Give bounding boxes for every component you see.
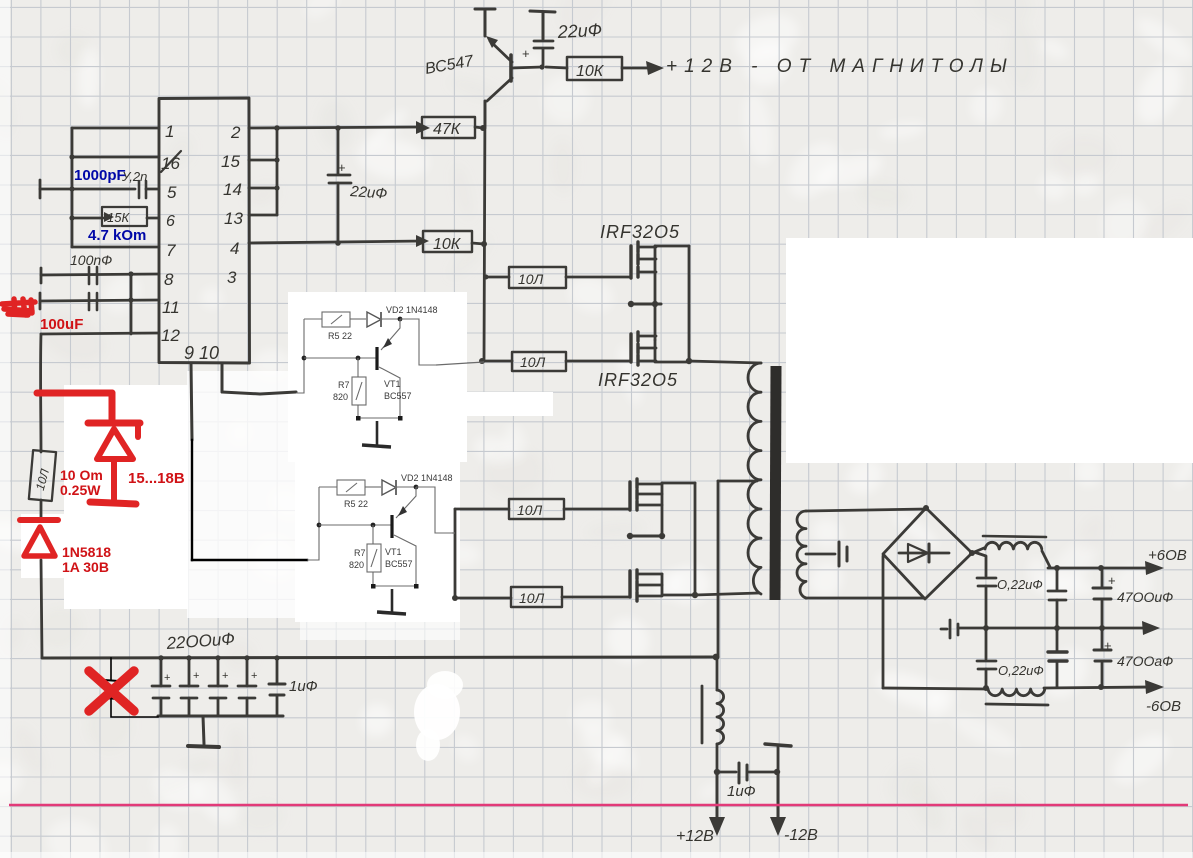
wire R2 to diode — [40, 500, 43, 520]
capacitor C14 1uF — [276, 658, 279, 716]
svg-text:47ООаФ: 47ООаФ — [1117, 653, 1173, 669]
junction midpoint c — [627, 533, 633, 539]
transistor VT1 driver2 emitter — [396, 487, 416, 518]
wire pin15 — [249, 159, 277, 162]
driver1 base wire — [304, 357, 376, 359]
wire row1 gate left — [485, 276, 509, 279]
right bus upper pair — [688, 246, 691, 362]
junction +60V a — [1054, 565, 1060, 571]
wire pin1 — [72, 127, 159, 130]
filter column upper lead — [974, 552, 986, 576]
wire 10K to bus — [472, 243, 484, 244]
wire bottom to L2 — [883, 688, 987, 689]
svg-text:13: 13 — [224, 209, 243, 228]
driver2 top wire — [319, 486, 337, 488]
wire junction to choke — [716, 657, 719, 690]
driver2 base wire — [319, 524, 391, 526]
resistor R5a 10 ohm box — [509, 267, 566, 288]
transformer T1 core — [775, 366, 776, 600]
mosfet Q5 source stub — [662, 574, 695, 595]
junction base node — [539, 64, 544, 69]
node top T terminal — [475, 9, 495, 36]
wire midpoint bar lower — [629, 535, 663, 538]
wire pin6 right — [147, 217, 159, 220]
crossed-out capacitor plates — [104, 680, 119, 699]
mosfet Q3 IRF3205 gate bar — [629, 334, 632, 362]
wire center tap to down bus — [718, 480, 757, 483]
transformer T1 primary winding — [748, 363, 761, 594]
svg-text:4.7 kOm: 4.7 kOm — [88, 227, 146, 244]
capacitor C6 center tap plates — [839, 542, 847, 566]
mosfet Q2 channel vertical — [654, 246, 657, 340]
junction pin15 — [274, 157, 279, 162]
transistor VT1 driver1 collector — [379, 367, 400, 418]
svg-text:14: 14 — [223, 180, 242, 199]
svg-text:BC557: BC557 — [385, 559, 413, 569]
driver2 output wire — [416, 487, 452, 533]
pin2 wire — [249, 127, 422, 128]
driver1 top wire — [304, 318, 322, 320]
wire pin5 left — [40, 188, 135, 191]
junction pin2 bus — [274, 125, 280, 131]
wire left supply rail upper — [39, 334, 42, 452]
junction +60V b — [1098, 565, 1104, 571]
junction row2 — [479, 358, 485, 364]
wire bridge left down — [882, 556, 885, 688]
white box of lower driver inset — [295, 450, 460, 622]
wire collector bus top — [484, 101, 487, 128]
svg-text:7: 7 — [166, 241, 176, 260]
wire Q2 drain rail — [655, 245, 689, 248]
transistor VT1 driver2 collector — [394, 535, 416, 586]
white band right of upper inset — [463, 392, 553, 416]
center tap down bus — [717, 481, 720, 657]
svg-text:+: + — [164, 672, 170, 684]
svg-text:1000pF: 1000pF — [74, 167, 126, 184]
ground driver1 — [376, 421, 379, 446]
schottky diode VD4 bar — [20, 517, 58, 523]
R7 leads driver2 — [372, 525, 374, 586]
resistor R6b 10 ohm box — [511, 587, 562, 607]
junction 0V filter — [983, 625, 989, 631]
capacitor C10 lead — [1056, 568, 1059, 590]
wire pin4 — [249, 241, 423, 243]
white patch top right — [786, 238, 1193, 463]
svg-text:100nФ: 100nФ — [70, 252, 112, 268]
capacitor C1 plates — [534, 41, 553, 48]
wire pin9 digital vertical — [191, 440, 193, 560]
svg-text:10К: 10К — [576, 63, 605, 80]
capacitor C13 lead2 — [1101, 661, 1104, 686]
svg-text:4: 4 — [230, 239, 239, 258]
gate drive bus vertical — [484, 101, 485, 361]
wire -60V rail — [1044, 687, 1148, 688]
resistor R7 driver2 — [367, 544, 381, 572]
transistor Q1 collector — [487, 78, 512, 101]
junction right bus upper — [686, 358, 692, 364]
junction bridge right — [969, 550, 975, 556]
svg-text:1uФ: 1uФ — [289, 678, 318, 695]
junction right bus lower — [692, 592, 698, 598]
svg-text:10 Om: 10 Om — [60, 467, 103, 483]
svg-text:1A 30В: 1A 30В — [62, 559, 109, 575]
mosfet Q3 channel plates — [636, 332, 639, 365]
driver1 bottom rail — [358, 417, 400, 419]
capacitor C12 plates — [1093, 588, 1111, 599]
capacitor C5 lead bottom — [337, 183, 340, 243]
wire bus pin8-pin12 — [130, 274, 133, 334]
capacitor C8 0.22uF plates — [977, 661, 996, 669]
wire diode to bottom rail — [41, 560, 42, 657]
wire pin9 digital horizontal — [192, 559, 307, 561]
white patch left annotation zone — [64, 385, 188, 609]
strike over pin16 label — [161, 151, 181, 172]
wire VD2 to node driver2 — [396, 486, 416, 488]
svg-text:16: 16 — [161, 154, 180, 173]
wire row3 gate right — [564, 508, 630, 511]
svg-text:11: 11 — [162, 298, 180, 317]
capacitor C12 lead2 — [1101, 599, 1104, 628]
svg-text:10Л: 10Л — [518, 271, 544, 287]
svg-text:+: + — [222, 670, 228, 682]
junction pin8 — [128, 271, 133, 276]
svg-text:6: 6 — [166, 213, 175, 230]
svg-text:BC557: BC557 — [384, 391, 412, 401]
svg-text:10Л: 10Л — [520, 354, 546, 370]
transistor Q1 base bar — [509, 55, 513, 81]
junction pin16 — [69, 154, 74, 159]
svg-text:5: 5 — [167, 183, 177, 202]
resistor R6a 10 ohm box — [512, 352, 566, 371]
bottom supply rail — [42, 657, 716, 658]
capacitor C3 100n plates — [89, 267, 97, 284]
wire pin10 hand stub — [221, 363, 224, 391]
arrow +12V output — [646, 61, 664, 75]
svg-text:47К: 47К — [433, 121, 462, 138]
junctions cap bank — [158, 655, 163, 660]
svg-text:2: 2 — [230, 123, 241, 142]
wire row2 gate right — [566, 360, 631, 363]
inductor L1 winding — [985, 542, 1042, 549]
right bus lower pair — [694, 483, 697, 595]
eraser blob bottom middle — [414, 684, 460, 740]
red marker annotations — [2, 299, 140, 711]
wire pin5 right — [146, 188, 159, 191]
capacitor C13 plates — [1094, 650, 1111, 661]
svg-text:+: + — [251, 670, 257, 682]
transistor VT1 driver2 base bar — [390, 515, 393, 538]
svg-text:15...18В: 15...18В — [128, 470, 185, 487]
svg-text:+: + — [193, 670, 199, 682]
junction driver2 base rail — [317, 523, 322, 528]
junction driver1 R7 — [356, 356, 361, 361]
arrow +60V — [1145, 561, 1164, 575]
junction midpoint a — [628, 301, 634, 307]
junction -12 node — [774, 769, 780, 775]
svg-text:1uФ: 1uФ — [727, 783, 756, 800]
capacitor C5 22uF lead top — [337, 128, 340, 174]
svg-text:10Л: 10Л — [517, 502, 543, 518]
wire row2 gate left — [485, 360, 512, 363]
resistor R5b 10 ohm box — [509, 499, 564, 519]
junction 10K bus — [481, 241, 487, 247]
cap bank bottom bar — [158, 715, 283, 718]
capacitor C2 1n2 plates — [139, 181, 146, 198]
svg-text:VD2 1N4148: VD2 1N4148 — [401, 473, 453, 483]
svg-text:10Л: 10Л — [519, 590, 545, 606]
svg-text:22uФ: 22uФ — [349, 183, 388, 203]
svg-text:IRF32О5: IRF32О5 — [600, 222, 680, 242]
wire secondary top — [806, 509, 926, 511]
capacitor C1 22uF top terminal — [530, 11, 555, 39]
svg-text:100uF: 100uF — [40, 316, 83, 333]
wire left bus pins 1-7 — [71, 128, 74, 247]
wire C1 to base node — [542, 49, 545, 67]
wire to primary bottom — [695, 593, 759, 595]
resistor R1 15K box — [102, 207, 147, 226]
filter column lower lead — [985, 669, 988, 688]
blue annotations — [74, 167, 146, 244]
pink separator line — [9, 804, 1188, 807]
driver2 left wire — [307, 487, 319, 560]
transformer T1 secondary winding — [797, 511, 806, 598]
wire base Q1 to C1 — [512, 67, 542, 68]
svg-text:1: 1 — [165, 122, 174, 141]
wire pin10 horizontal — [222, 392, 296, 394]
svg-text:VT1: VT1 — [385, 547, 402, 557]
arrow 0V — [1142, 621, 1160, 635]
wire pin12 — [41, 333, 159, 334]
junction bottom rail center — [713, 654, 720, 661]
junction driver2 node — [414, 485, 419, 490]
IC U1 body — [159, 98, 250, 363]
mosfet Q4 channel plates — [635, 479, 638, 510]
svg-text:О,22uФ: О,22uФ — [997, 577, 1043, 592]
junction -60V cap — [1098, 684, 1104, 690]
capacitor C11 lead — [1056, 628, 1059, 651]
zener diode VD3 cathode bar — [88, 420, 140, 427]
capacitor C15 lead2 — [749, 771, 776, 774]
junction 0V a — [1054, 625, 1060, 631]
input terminal pin8 — [40, 268, 43, 283]
wire to primary top — [689, 361, 761, 363]
mosfet Q3 source stub — [655, 340, 689, 362]
zener bottom bar — [90, 502, 136, 504]
junction row1 — [484, 275, 489, 280]
capacitor C4 100uF plates — [89, 293, 97, 310]
junction driver1 base rail — [302, 356, 307, 361]
svg-text:10К: 10К — [433, 236, 462, 253]
diode VD2 1N4148 driver2 — [382, 480, 396, 495]
resistor R7 driver1 — [352, 377, 366, 405]
inset component labels — [328, 305, 453, 570]
junction pin4 cap — [335, 240, 341, 246]
svg-text:-12В: -12В — [784, 827, 818, 844]
filter column mid lead — [985, 586, 988, 659]
capacitor C15 plates — [739, 763, 747, 783]
wire pin8 — [41, 274, 159, 275]
resistor 10K top box — [567, 57, 622, 80]
whitened zone mid-left — [187, 371, 305, 618]
wire row3 gate left — [455, 508, 509, 511]
red X cross-out — [89, 671, 134, 711]
svg-text:+6ОВ: +6ОВ — [1148, 547, 1187, 564]
svg-text:9 10: 9 10 — [184, 343, 219, 363]
junction midpoint b — [652, 301, 658, 307]
junction row4 — [452, 595, 458, 601]
white patch around red diode — [21, 514, 64, 578]
svg-text:-6ОВ: -6ОВ — [1146, 698, 1181, 715]
mosfet Q4 IRF3205 gate bar — [628, 482, 631, 510]
mosfet Q2 terminal stubs — [639, 247, 656, 272]
wire secondary bottom — [806, 597, 924, 600]
wire 0V rail — [958, 627, 1146, 630]
R7 leads driver1 — [357, 358, 359, 418]
inductor L1 core line — [983, 536, 1046, 537]
red annotations text — [40, 316, 185, 575]
svg-text:R5 22: R5 22 — [328, 331, 352, 341]
wire R5 to VD2 driver2 — [365, 486, 381, 488]
-12 output arrow — [777, 772, 780, 820]
wire row4 gate right — [562, 596, 630, 599]
wire choke to +12 node — [716, 744, 719, 772]
junction 0V b — [1099, 625, 1105, 631]
svg-text:15К: 15К — [107, 210, 130, 225]
white box of upper driver inset — [288, 292, 467, 462]
svg-text:VT1: VT1 — [384, 379, 401, 389]
mosfet Q5 IRF3205 gate bar — [628, 571, 631, 597]
mosfet Q5 channel plates — [635, 570, 638, 601]
driver2 bottom rail — [373, 585, 416, 587]
red wire to zener — [37, 390, 112, 397]
junction pin11 — [128, 297, 133, 302]
diode VD2 1N4148 driver1 — [367, 312, 381, 327]
resistor R5 driver2 — [337, 480, 365, 495]
junction pin14 — [274, 185, 279, 190]
schottky diode VD4 triangle — [24, 527, 55, 556]
resistor R2 10 Ohm box — [29, 450, 56, 501]
bridge diode symbol — [899, 552, 949, 555]
svg-text:22uФ: 22uФ — [556, 20, 602, 42]
svg-text:3: 3 — [227, 268, 237, 287]
mosfet Q2 IRF3205 gate bar — [629, 246, 632, 278]
svg-text:VD2 1N4148: VD2 1N4148 — [386, 305, 438, 315]
capacitor C7 0.22uF plates — [977, 578, 996, 586]
wire row1 gate right — [566, 276, 631, 279]
capacitor C12 4700uF lead — [1101, 568, 1104, 587]
svg-text:47ООuФ: 47ООuФ — [1117, 589, 1173, 605]
capacitor C15 1uF lead — [719, 771, 736, 774]
wire pin9 hand stub — [191, 363, 192, 440]
resistor R3 47K box — [422, 117, 475, 138]
bus pins 15-13 — [276, 128, 279, 215]
svg-text:R7: R7 — [338, 380, 350, 390]
wire Q4 drain rail — [662, 482, 695, 485]
-12 T terminal — [765, 744, 791, 746]
wire L1 to +60V rail — [1042, 551, 1050, 567]
wire pin11 — [40, 300, 159, 301]
svg-text:1N5818: 1N5818 — [62, 544, 111, 560]
svg-text:R7: R7 — [354, 548, 366, 558]
junction pin6 — [69, 215, 74, 220]
junction midpoint d — [659, 533, 665, 539]
wire 10K to arrow — [622, 67, 648, 70]
wire pin7 — [72, 246, 159, 249]
resistor R4 10K box — [423, 231, 472, 252]
junction driver2 R7 — [371, 523, 376, 528]
junction 47K bus — [480, 125, 486, 131]
transistor VT1 driver1 base bar — [375, 347, 378, 370]
capacitor bank plates — [152, 686, 256, 698]
mosfet Q5 terminal stubs — [638, 574, 662, 596]
mosfet Q4 terminal stubs — [638, 484, 662, 505]
svg-text:R5 22: R5 22 — [344, 499, 368, 509]
wire pin13 — [249, 214, 277, 217]
arrow mark into 47K — [416, 121, 430, 134]
wire pin16 — [72, 156, 159, 159]
ground symbol bottom — [203, 716, 204, 744]
transistor Q1 BC547 emitter — [490, 41, 512, 62]
zener stem — [111, 459, 117, 500]
bridge rectifier D2 diamond — [883, 508, 972, 599]
inductor L2 winding — [988, 689, 1045, 696]
wire VD2 to node — [381, 318, 400, 320]
svg-text:+: + — [338, 160, 346, 175]
junction pin5 — [69, 186, 74, 191]
input terminal pin11 — [39, 293, 42, 309]
wire bridge to L1 — [972, 548, 984, 553]
crossed-out capacitor leads — [111, 658, 158, 717]
lower cell left bus — [454, 509, 457, 598]
arrow mark into 15K — [104, 212, 114, 222]
junction driver1 node — [398, 317, 403, 322]
svg-text:12: 12 — [161, 326, 180, 345]
junction -60V filter — [983, 685, 989, 691]
wire midpoint bar upper — [630, 303, 661, 306]
mosfet Q4 channel vertical — [661, 483, 664, 536]
wire +60V rail — [1048, 567, 1148, 570]
capacitor C11 lead2 — [1056, 661, 1059, 687]
svg-text:820: 820 — [333, 392, 348, 402]
svg-text:+12В: +12В — [676, 828, 714, 845]
wire node to 10K — [546, 67, 567, 68]
junction +12 node — [714, 769, 720, 775]
capacitor C11 plates — [1048, 652, 1067, 661]
wire pin14 — [249, 187, 277, 190]
wire secondary center tap — [806, 553, 835, 556]
arrow -60V — [1145, 680, 1164, 694]
driver1 output wire — [400, 319, 436, 365]
svg-text:+: + — [522, 46, 530, 61]
choke L3 core line — [701, 686, 704, 743]
+12 output arrow — [716, 772, 719, 820]
svg-text:15: 15 — [221, 152, 240, 171]
svg-text:0.25W: 0.25W — [60, 482, 101, 498]
driver1 left wire — [296, 319, 304, 393]
capacitor bank 2200uF leads — [161, 658, 247, 716]
resistor R5 driver1 — [322, 312, 350, 327]
junction pin2 cap — [335, 125, 341, 131]
capacitor C9 series bars 0V rail — [941, 620, 958, 638]
wire 47K to bus — [475, 127, 483, 128]
svg-text:820: 820 — [349, 560, 364, 570]
svg-text:IRF32О5: IRF32О5 — [598, 370, 678, 390]
junction bridge top — [923, 505, 929, 511]
svg-text:+: + — [1104, 638, 1112, 653]
capacitor C5 plates — [328, 175, 351, 183]
wire pin6 left — [72, 217, 103, 220]
capacitor C10 plates — [1048, 591, 1066, 600]
